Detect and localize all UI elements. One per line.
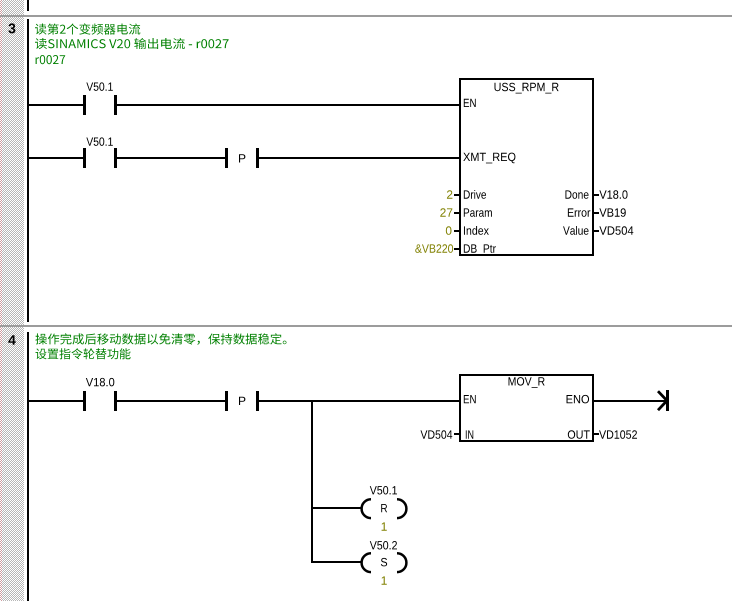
coil letter S [381,558,387,567]
pin tick Error [594,212,599,214]
value 27 (Param pin) [440,208,452,216]
continuation arrow head [658,391,667,410]
wire contact to EN input [115,104,459,106]
coil R parentheses [362,499,407,518]
label V50.1 (R coil) [370,486,397,495]
pin label DB_Ptr [464,244,496,255]
contact P rung2 left bar [225,148,228,168]
pin tick IN [454,433,459,435]
wire rail to contact V18.0 [29,400,84,402]
value 1 (S coil) [382,576,387,584]
pin tick Drive [454,194,459,196]
pin tick DB_Ptr [454,248,459,250]
coil S parentheses [362,553,407,572]
block title MOV_R [509,377,545,388]
pin label Param [464,208,492,216]
contact V50.1 rung1 left bar [83,95,86,115]
value VD504 (IN pin) [420,430,452,439]
pin tick Done [594,194,599,196]
wire rail to contact V50.1 rung1 [29,104,84,106]
label V50.1 (rung2 contact) [86,137,112,146]
coil letter R [381,504,387,512]
contact V50.1 rung2 left bar [83,148,86,168]
contact V18.0 left bar [83,391,86,411]
label V50.1 (rung1 contact) [86,82,112,91]
wire V50.1 to P contact [115,157,226,159]
contact V50.1 rung1 right bar [114,95,117,115]
pin tick Value [594,230,599,232]
grey network margin (dithered sidebar) [2,0,24,601]
wire branch to R coil [311,507,361,509]
pin label Index [464,226,489,235]
wire branch to S coil [311,561,361,563]
label V18.0 (net4 contact) [86,378,114,387]
wire rail to contact V50.1 rung2 [29,157,84,159]
pin label Drive [464,190,486,199]
contact P net4 right bar [256,391,259,411]
value 0 (Index pin) [446,226,452,235]
value V18.0 (Done pin) [599,190,627,199]
pin tick Param [454,212,459,214]
pin label EN (USS) [464,99,476,107]
network 3 comment line 3 [36,55,66,64]
pin label XMT_REQ [463,153,515,164]
power rail (network 2, partial) [27,0,29,11]
network 3 comment line 2 [35,38,229,49]
contact V50.1 rung2 right bar [114,148,117,168]
USS_RPM_R box border [459,78,594,80]
network number 3 [8,23,15,33]
label P (net4 edge contact) [239,397,245,405]
network 2/3 separator [0,15,732,17]
contact P net4 left bar [225,391,228,411]
value VD504 (Value pin) [599,226,633,235]
value VD1052 (OUT pin) [599,430,637,439]
power rail (network 3) [27,19,29,322]
pin tick Index [454,230,459,232]
block title USS_RPM_R [495,83,559,94]
wire P contact to XMT_REQ input [257,157,459,159]
network number 4 [8,335,16,345]
left margin pink strip [0,0,2,601]
contact V18.0 right bar [114,391,117,411]
network 3 comment line 1 [35,23,140,34]
pin label Done [565,190,588,198]
pin label ENO [567,395,590,404]
pin label Value [563,226,589,235]
pin label OUT [568,430,590,439]
pin label Error [568,208,590,216]
wire ENO to continuation arrow [594,400,666,402]
value &VB220 (DB_Ptr pin) [415,244,453,253]
wire P to MOV_R EN input [257,400,459,402]
network 4 comment line 2 [36,348,131,359]
branch vertical wire [311,400,313,563]
value 2 (Drive pin) [447,190,453,198]
network 3/4 separator [0,325,732,327]
value 1 (R coil) [382,522,387,530]
pin tick OUT [594,433,599,435]
network 4 comment line 1 [35,333,286,345]
value VB19 (Error pin) [599,208,625,217]
pin label EN (MOV) [464,395,476,403]
wire V18.0 to P contact [115,400,226,402]
label V50.2 (S coil) [370,541,397,550]
label P (rung2 edge contact) [239,154,245,162]
pin label IN [466,430,473,438]
continuation arrow bar [666,390,669,411]
contact P rung2 right bar [256,148,259,168]
MOV_R box border [459,374,594,376]
power rail (network 4) [27,332,29,601]
